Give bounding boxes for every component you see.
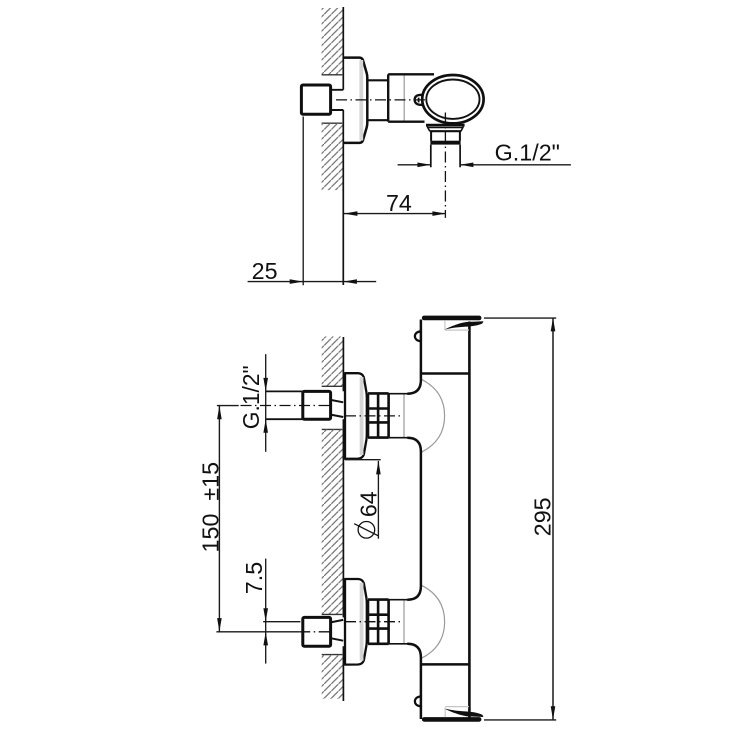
bottom cap bar	[422, 717, 482, 722]
bottom cap gray guides	[445, 707, 469, 718]
outlet pipe walls	[431, 145, 460, 168]
top nut grid	[368, 393, 389, 437]
horizontal centerline	[336, 99, 428, 101]
step edge	[387, 74, 389, 121]
svg-text:7.5: 7.5	[241, 562, 267, 594]
button notch	[418, 98, 420, 103]
top flange escutcheon	[345, 373, 367, 459]
top ear	[415, 331, 421, 341]
dim 74 line	[344, 213, 446, 215]
top dome bell face	[403, 395, 405, 438]
outlet collar top bar	[426, 124, 465, 127]
escutcheon flange	[343, 58, 367, 143]
body left edge with top dome fillet	[407, 320, 421, 394]
outlet thread band	[430, 141, 460, 145]
arrow down to stub top	[263, 378, 268, 392]
wall hatch cap line above union	[322, 74, 343, 76]
bottom flange escutcheon	[345, 579, 367, 665]
body left edge mid with dome fillets	[389, 437, 409, 439]
bottom ear	[415, 696, 421, 706]
body right edge	[468, 322, 471, 719]
hatch cap line	[322, 613, 343, 615]
svg-text:74: 74	[386, 190, 412, 216]
ext line 150 top	[217, 405, 239, 407]
dim 25 line	[248, 281, 377, 283]
top flange shading	[360, 377, 364, 455]
hatch cap line	[322, 654, 343, 656]
dim G.1/2 (top) line right	[460, 164, 571, 166]
bottom flange shading	[360, 583, 364, 661]
neck	[367, 80, 388, 120]
bottom dome bell face	[403, 601, 405, 644]
centerline top union pipe	[241, 405, 333, 407]
bottom nut grid	[368, 600, 389, 644]
body seam lower	[422, 663, 470, 666]
dim 150 vertical line	[218, 406, 220, 632]
dim 295 vertical line	[552, 318, 554, 720]
arrow left 74	[344, 211, 358, 216]
flange shading	[359, 60, 363, 141]
bottom cap swoosh	[444, 708, 484, 717]
wall surface line	[342, 7, 344, 285]
ext line 150 bottom / pipe center	[216, 631, 299, 633]
diameter symbol slash	[354, 524, 378, 536]
svg-text:G.1/2": G.1/2"	[495, 139, 560, 165]
centerline top valve	[345, 415, 400, 417]
ext line valve center	[263, 621, 300, 623]
bottom union cone	[331, 620, 344, 641]
dim G.1/2 (top) line left	[398, 164, 431, 166]
wall hatch cap line below union	[322, 122, 343, 124]
wall hatch seg3	[322, 655, 344, 699]
arrow down 150	[217, 618, 222, 632]
wall hatch upper	[322, 8, 344, 75]
arrow up 150	[217, 406, 222, 420]
collar mid line	[428, 127, 463, 129]
top union stub pipe	[266, 391, 303, 419]
diameter symbol circle	[358, 522, 375, 539]
dim 7.5 vertical line	[265, 559, 267, 664]
hatch cap line	[322, 428, 343, 430]
arrow left toward wall	[343, 279, 357, 284]
svg-text:G.1/2": G.1/2"	[238, 365, 264, 429]
collar low bar	[430, 130, 461, 132]
arrow right toward 303	[290, 279, 304, 284]
top union cone	[331, 400, 344, 417]
centerline bottom union pipe	[299, 631, 332, 633]
ext line 295 bottom	[484, 719, 556, 721]
knob inner ellipse	[426, 80, 479, 119]
arrow down 295	[551, 706, 556, 720]
top cap gray guides	[445, 320, 469, 330]
side button	[415, 95, 424, 105]
arrow up to stub bottom	[263, 419, 268, 433]
extension line block left	[302, 117, 304, 286]
wall hatch seg1	[322, 337, 344, 387]
arrow up dia64	[376, 461, 381, 475]
body seam upper	[422, 372, 470, 375]
arrow left at outlet right wall	[460, 163, 474, 168]
svg-text:295: 295	[530, 497, 556, 536]
svg-text:25: 25	[252, 258, 278, 284]
supply block	[301, 85, 330, 114]
bottom dome bell arc	[421, 585, 444, 658]
arrow up 295	[551, 318, 556, 332]
barrel seam	[403, 76, 405, 121]
ext line flange bottom	[345, 459, 381, 461]
wall hatch seg2	[322, 429, 344, 614]
wall hatch lower	[322, 123, 344, 190]
top cap bar	[422, 316, 482, 321]
top dome bell arc	[421, 379, 444, 452]
supply stub pipe	[331, 90, 344, 110]
ext line 295 top	[484, 317, 556, 319]
arrow up 7.5	[263, 632, 268, 646]
top union block	[303, 391, 331, 419]
valve barrel	[388, 74, 434, 121]
dia64 leader line	[377, 461, 379, 539]
dim G.1/2 vertical line	[265, 354, 267, 452]
arrow right at outlet left wall	[417, 163, 431, 168]
top cap swoosh	[444, 321, 484, 330]
bottom union block	[303, 617, 331, 646]
vertical centerline of outlet	[444, 113, 446, 218]
wall surface line	[342, 337, 344, 701]
arrow right 74	[432, 211, 446, 216]
outlet nipple walls	[431, 131, 460, 141]
svg-text:150 ±15: 150 ±15	[197, 462, 223, 553]
centerline bottom valve	[345, 621, 400, 623]
body left edge lower	[389, 643, 409, 645]
knob outer ellipse	[422, 75, 483, 123]
svg-text:64: 64	[356, 491, 382, 517]
collar slants	[427, 127, 463, 132]
arrow down 7.5	[263, 608, 268, 622]
hatch cap line	[322, 385, 343, 387]
